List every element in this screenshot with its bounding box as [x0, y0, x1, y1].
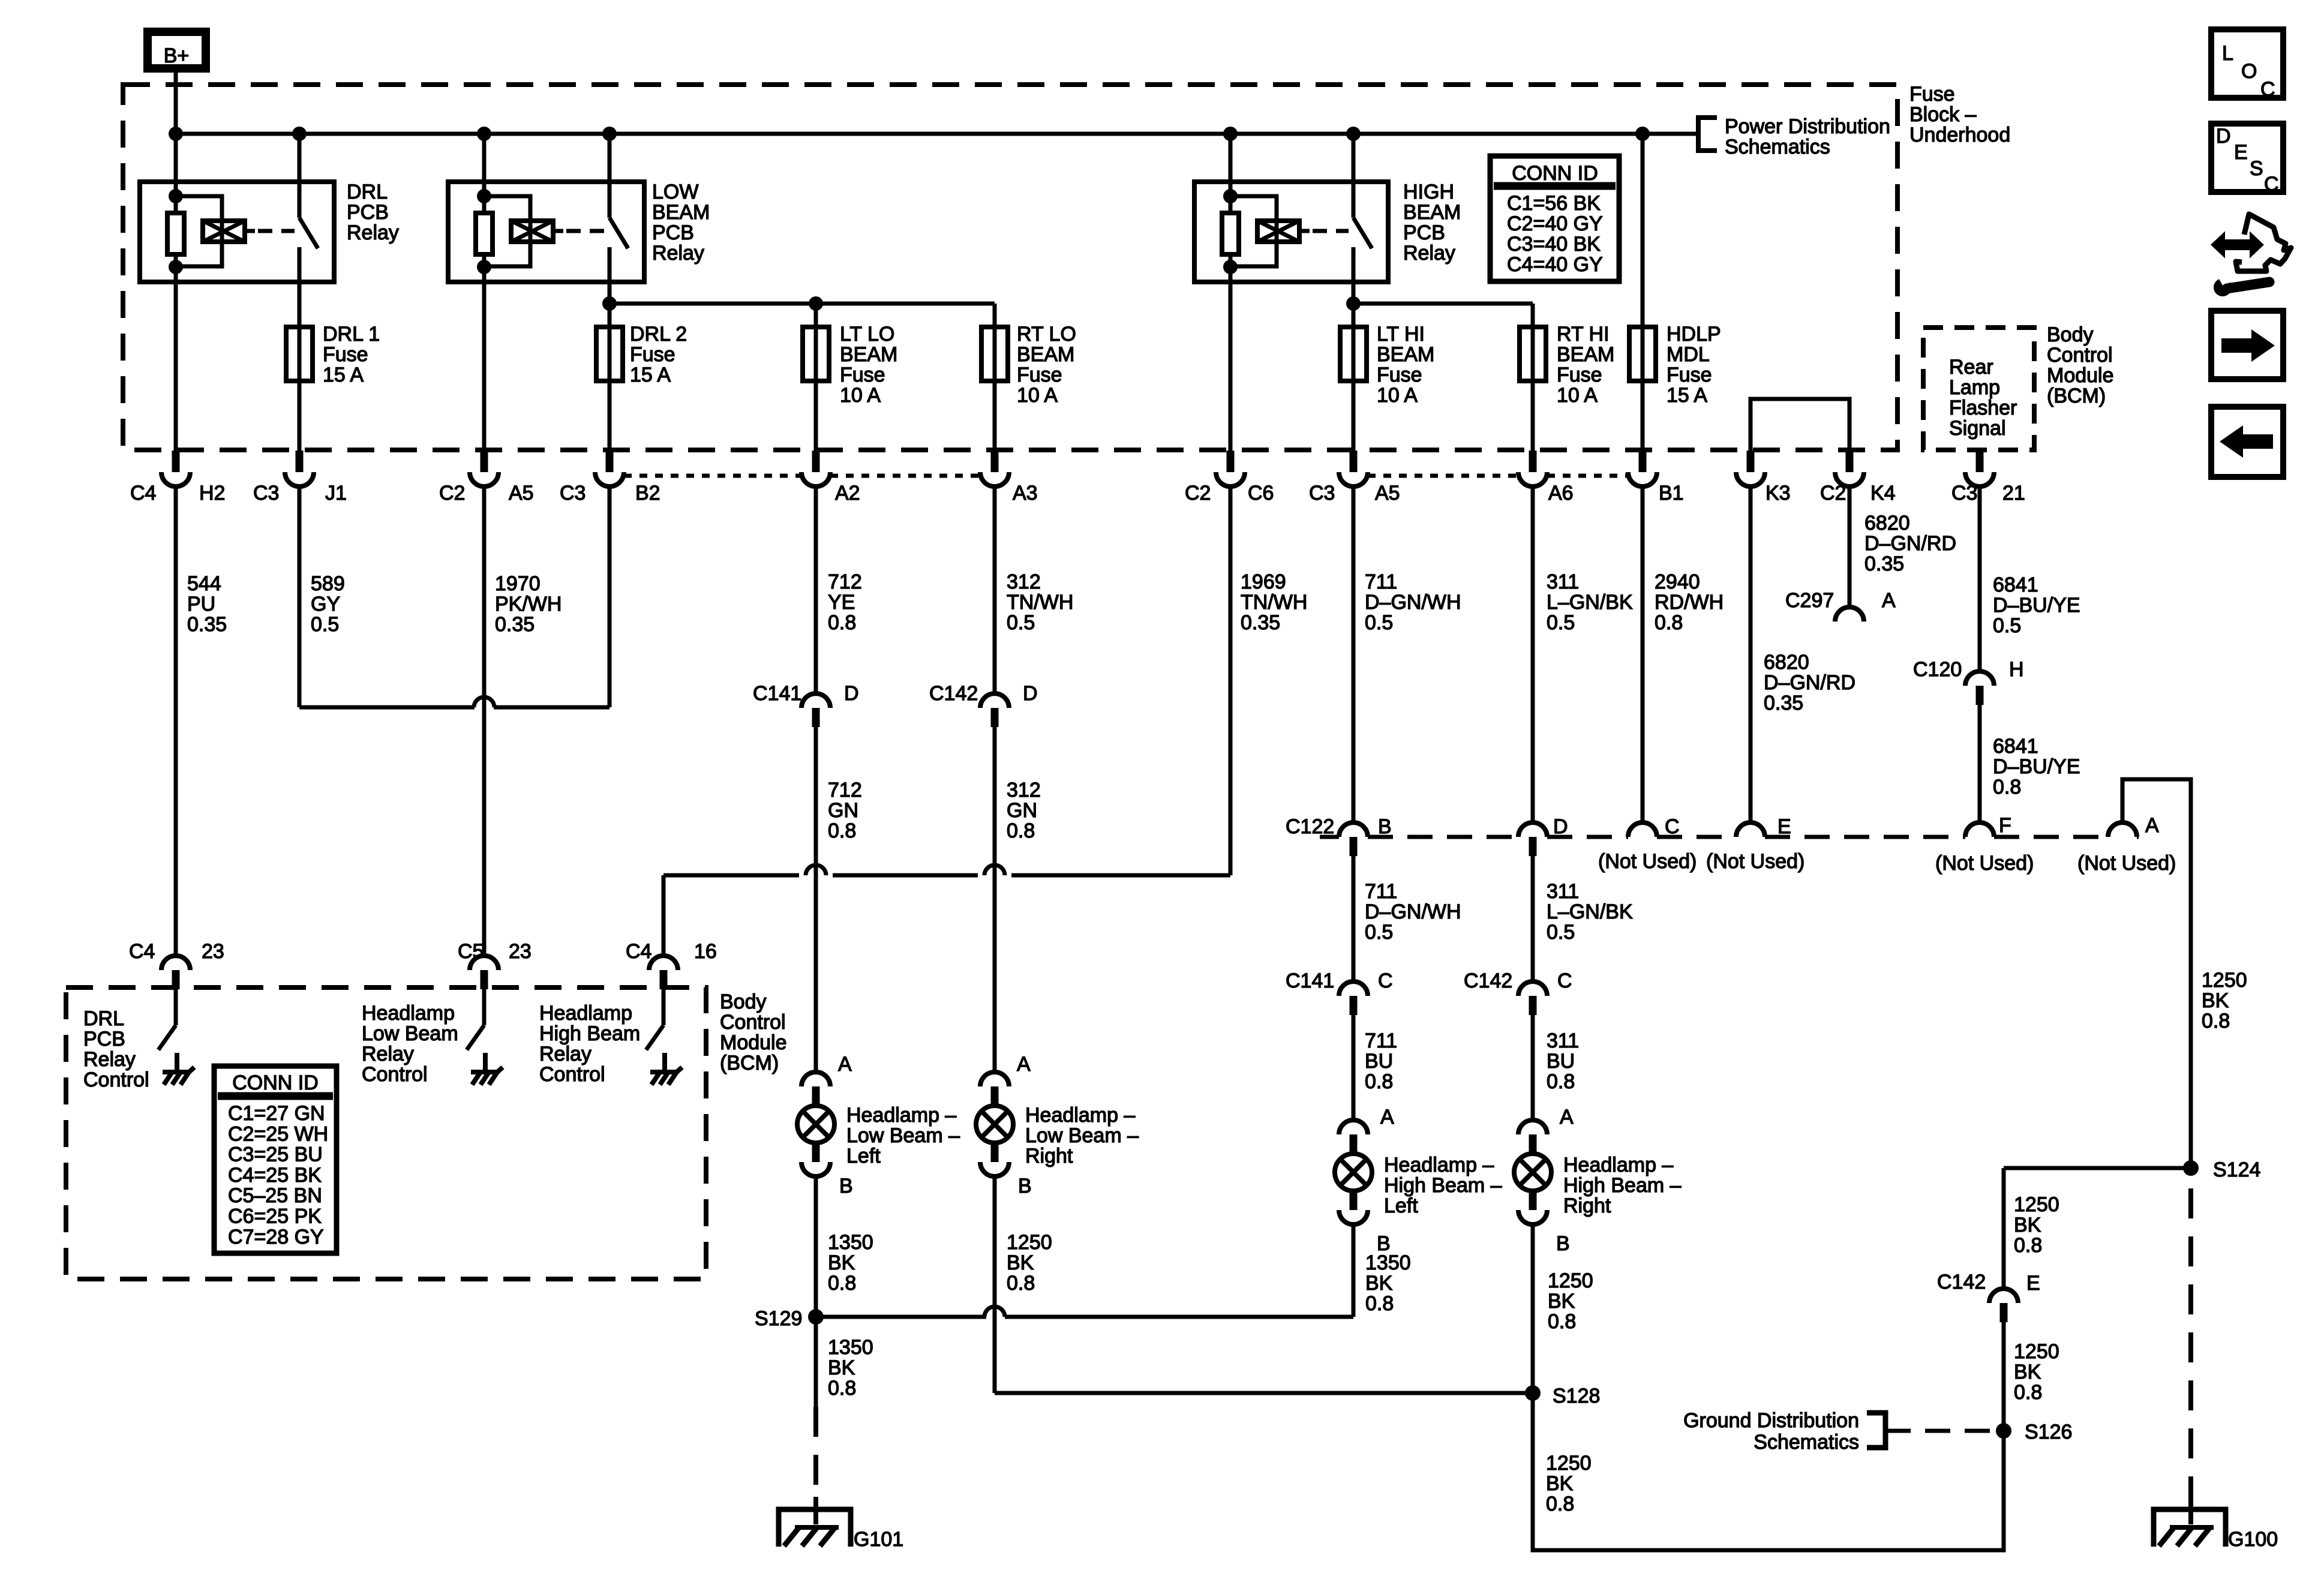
svg-text:C3=25 BU: C3=25 BU: [228, 1143, 323, 1166]
svg-text:Fuse: Fuse: [840, 364, 885, 386]
connector pin A6: [1518, 451, 1547, 487]
svg-text:C3: C3: [1309, 482, 1335, 505]
svg-text:E: E: [2026, 1272, 2040, 1295]
svg-text:A: A: [1017, 1053, 1031, 1076]
svg-text:C7=28 GY: C7=28 GY: [228, 1226, 324, 1248]
svg-text:BEAM: BEAM: [1377, 343, 1434, 366]
svg-text:0.8: 0.8: [1993, 776, 2021, 798]
svg-text:311: 311: [1547, 880, 1579, 903]
svg-text:C4: C4: [129, 940, 155, 963]
connector C141 pin D: [801, 694, 830, 727]
wire jumper K3 to K4 inside fuse block: [1750, 399, 1849, 451]
svg-text:O: O: [2241, 60, 2257, 83]
svg-text:C2: C2: [1820, 482, 1846, 505]
svg-text:0.35: 0.35: [1864, 553, 1904, 575]
svg-text:0.5: 0.5: [1007, 611, 1035, 634]
lamp Headlamp High Beam Right: [1514, 1154, 1551, 1191]
wire bus drops into relays: [176, 134, 1353, 182]
connector C122 pin D: [1518, 822, 1547, 856]
svg-text:0.5: 0.5: [311, 613, 339, 636]
icon arrow left box: [2211, 407, 2283, 477]
svg-text:MDL: MDL: [1667, 343, 1710, 366]
label Headlamp Low Beam Right: [1025, 1104, 1139, 1167]
label 311 L-GN/BK 0.5 (lower): [1547, 880, 1633, 944]
svg-text:C141: C141: [1286, 969, 1334, 992]
svg-text:S: S: [2250, 157, 2263, 180]
svg-text:6841: 6841: [1993, 735, 2038, 758]
wire 6820 D-GN/RD from K3: [1749, 487, 1753, 822]
svg-text:Control: Control: [362, 1063, 428, 1086]
labels C122 pins: [1286, 814, 2159, 838]
svg-text:Relay: Relay: [539, 1043, 591, 1065]
svg-text:1969: 1969: [1241, 571, 1286, 593]
svg-text:C2: C2: [1185, 482, 1211, 505]
connector C141 pin C: [1339, 981, 1368, 1015]
svg-text:S124: S124: [2213, 1158, 2260, 1181]
splice S126: [1996, 1421, 2072, 1443]
svg-text:BEAM: BEAM: [652, 201, 710, 224]
svg-text:1250: 1250: [1546, 1452, 1592, 1475]
svg-text:B1: B1: [1659, 482, 1684, 505]
svg-text:1350: 1350: [1365, 1251, 1411, 1274]
connector C142 pin D: [980, 694, 1009, 727]
svg-text:Headlamp –: Headlamp –: [1563, 1154, 1673, 1176]
label 1250 BK 0.8 (right feed): [2202, 969, 2247, 1032]
label 1350 BK 0.8 (low left): [828, 1231, 873, 1295]
label DRL PCB Relay Control: [83, 1007, 149, 1091]
svg-text:PCB: PCB: [1403, 221, 1445, 244]
svg-text:C: C: [1665, 815, 1680, 838]
labels A / B of Headlamp High Beam Right: [1556, 1106, 1574, 1255]
svg-text:DRL: DRL: [83, 1007, 124, 1030]
svg-text:High Beam –: High Beam –: [1384, 1174, 1502, 1197]
label HIGH BEAM PCB Relay: [1403, 181, 1461, 265]
label 1250 BK 0.8 (below S128): [1546, 1452, 1592, 1515]
svg-text:10 A: 10 A: [1017, 384, 1058, 407]
label 6841 D-BU/YE 0.5: [1993, 574, 2080, 637]
ground G100: [2154, 1497, 2278, 1551]
lamp Headlamp Low Beam Left: [797, 1106, 834, 1143]
svg-text:C142: C142: [1464, 969, 1512, 992]
svg-text:A: A: [1380, 1106, 1394, 1128]
svg-text:23: 23: [202, 940, 224, 963]
wire B+ to bus: [174, 73, 178, 134]
svg-text:0.5: 0.5: [1365, 921, 1393, 944]
svg-text:711: 711: [1365, 880, 1397, 903]
wire 544 PU circuit: [174, 487, 178, 956]
wire 311 BU to high beam right: [1531, 1015, 1535, 1120]
svg-text:712: 712: [828, 571, 862, 593]
svg-text:C4: C4: [626, 940, 651, 963]
labels C141 C: [1286, 969, 1393, 992]
wire bus to HDLP MDL fuse: [1641, 134, 1645, 451]
svg-text:C120: C120: [1913, 658, 1962, 681]
svg-text:Control: Control: [2047, 344, 2113, 367]
fuse RT HI BEAM 10A: [1520, 327, 1546, 381]
label 712 YE 0.8: [828, 571, 862, 634]
label Headlamp High Beam Relay Control: [539, 1002, 640, 1086]
fuse DRL 1 15A: [286, 327, 313, 381]
svg-text:0.8: 0.8: [1548, 1310, 1576, 1333]
wire C122 A jog to ground run: [2122, 779, 2191, 1168]
svg-text:PCB: PCB: [83, 1028, 125, 1050]
svg-text:0.8: 0.8: [828, 611, 856, 634]
svg-text:A6: A6: [1548, 482, 1574, 505]
wire 311 L-GN/BK below C122: [1531, 856, 1535, 981]
label 712 GN 0.8: [828, 779, 862, 842]
label Body Control Module (BCM): [2047, 323, 2114, 407]
wire S124 to G100 dashed: [2188, 1188, 2193, 1497]
connector pin C2 C6: [1216, 451, 1245, 487]
label 2940 RD/WH 0.8: [1655, 571, 1724, 634]
wire 1970 PK/WH circuit: [482, 487, 487, 956]
svg-text:GN: GN: [828, 799, 858, 822]
connector BCM C4 pin 23: [129, 940, 224, 989]
svg-text:Module: Module: [2047, 364, 2114, 387]
labels C141 D: [753, 682, 859, 705]
svg-text:C4: C4: [130, 482, 156, 505]
BCM rear lamp flasher dashed box: [1923, 328, 2034, 450]
svg-text:A3: A3: [1013, 482, 1038, 505]
svg-text:C: C: [1557, 969, 1572, 992]
svg-text:16: 16: [694, 940, 717, 963]
svg-text:C3: C3: [1951, 482, 1977, 505]
relay K2 LOW BEAM PCB coil winding: [484, 196, 563, 266]
svg-text:711: 711: [1365, 1029, 1397, 1052]
svg-text:D–GN/RD: D–GN/RD: [1864, 532, 1956, 555]
relay K1 DRL PCB switch contacts: [299, 182, 318, 282]
svg-text:589: 589: [311, 572, 345, 595]
fuse RT LO BEAM 10A: [981, 327, 1008, 381]
relay K2 LOW BEAM PCB switch contacts: [609, 182, 628, 282]
svg-text:DRL 1: DRL 1: [323, 323, 380, 346]
svg-text:(Not Used): (Not Used): [2077, 852, 2176, 875]
svg-text:Low Beam –: Low Beam –: [1025, 1124, 1139, 1147]
svg-text:15 A: 15 A: [1667, 384, 1707, 407]
connector pin C3 J1: [285, 451, 314, 487]
label DRL 1 Fuse 15 A: [323, 323, 380, 386]
svg-text:B2: B2: [635, 482, 660, 505]
svg-text:C3: C3: [253, 482, 279, 505]
svg-text:D: D: [1553, 815, 1568, 838]
svg-text:L–GN/BK: L–GN/BK: [1547, 900, 1633, 923]
svg-text:GY: GY: [311, 593, 340, 616]
svg-text:Left: Left: [1384, 1194, 1418, 1217]
svg-text:Lamp: Lamp: [1949, 376, 2000, 399]
BCM DRL relay control driver switch: [158, 989, 194, 1085]
svg-text:Ground Distribution: Ground Distribution: [1683, 1409, 1859, 1432]
svg-text:Schematics: Schematics: [1753, 1431, 1859, 1454]
svg-text:Headlamp: Headlamp: [362, 1002, 455, 1025]
relay K1 DRL PCB coil winding: [176, 196, 255, 266]
label Body Control Module (BCM) bottom: [720, 990, 787, 1074]
svg-text:C122: C122: [1286, 815, 1334, 838]
svg-text:1250: 1250: [2014, 1193, 2059, 1216]
svg-text:311: 311: [1547, 1029, 1579, 1052]
svg-text:0.5: 0.5: [1547, 611, 1575, 634]
connector pin C4 H2: [161, 451, 190, 487]
svg-text:D–BU/YE: D–BU/YE: [1993, 594, 2080, 617]
wire C142 E up to S124: [2004, 1168, 2191, 1289]
connector BCM C5 pin 23: [458, 940, 532, 989]
svg-text:C2=25 WH: C2=25 WH: [228, 1122, 328, 1145]
connector C142 pin C: [1518, 981, 1547, 1015]
wire 712 GN circuit: [814, 727, 818, 1072]
relay box K2 LOW BEAM PCB: [448, 182, 644, 282]
svg-text:23: 23: [509, 940, 532, 963]
label 6820 D-GN/RD 0.35 (K3): [1764, 651, 1855, 715]
svg-text:K4: K4: [1870, 482, 1896, 505]
svg-text:YE: YE: [828, 591, 855, 614]
svg-text:High Beam –: High Beam –: [1563, 1174, 1682, 1197]
svg-text:0.8: 0.8: [1546, 1493, 1574, 1515]
svg-text:BK: BK: [1365, 1272, 1393, 1295]
connector pin C3 B2: [595, 451, 624, 487]
label 6820 D-GN/RD 0.35 (K4): [1864, 512, 1956, 575]
svg-text:LT LO: LT LO: [840, 323, 894, 346]
icon DESC box: [2211, 124, 2283, 196]
wire S129 to G101: [814, 1317, 818, 1497]
wire HIGH BEAM relay coil output to C2 C6: [1229, 282, 1233, 451]
off-page bracket to Power Distribution Schematics: [1698, 118, 1717, 151]
labels A / B of Headlamp Low Beam Left: [838, 1053, 853, 1197]
svg-text:S128: S128: [1553, 1385, 1600, 1407]
svg-text:BK: BK: [1546, 1472, 1574, 1495]
wire 1350 BK low beam left to S129: [814, 1176, 818, 1317]
labels A / B of Headlamp High Beam Left: [1377, 1106, 1394, 1255]
labels C120 H: [1913, 658, 2024, 681]
svg-text:RT HI: RT HI: [1557, 323, 1610, 346]
label 711 D-GN/WH 0.5: [1365, 571, 1461, 634]
svg-text:Relay: Relay: [652, 242, 704, 265]
wire DRL relay switch to DRL 1 fuse: [298, 282, 302, 451]
label DRL PCB Relay: [347, 181, 399, 244]
svg-text:C5: C5: [458, 940, 484, 963]
icon shift/wrench: [2212, 214, 2291, 296]
label 544 PU 0.35: [187, 572, 227, 636]
wire 589 GY circuit: [299, 487, 609, 707]
labels C142 E: [1937, 1271, 2040, 1295]
svg-text:Left: Left: [846, 1145, 881, 1167]
svg-text:C2=40 GY: C2=40 GY: [1507, 212, 1603, 235]
svg-text:S129: S129: [755, 1307, 802, 1330]
label 1969 TN/WH 0.35: [1241, 571, 1307, 634]
svg-text:Rear: Rear: [1949, 356, 1993, 379]
label 1970 PK/WH 0.35: [495, 572, 562, 636]
crossover hop at 1658 on S129 run: [984, 1307, 1005, 1317]
svg-text:Schematics: Schematics: [1725, 136, 1830, 158]
svg-text:L: L: [2222, 42, 2233, 65]
connector pin B1: [1628, 451, 1657, 487]
svg-text:TN/WH: TN/WH: [1241, 591, 1307, 614]
connector pin C2 K4: [1835, 451, 1864, 487]
svg-text:0.8: 0.8: [2202, 1010, 2230, 1032]
svg-text:10 A: 10 A: [1377, 384, 1418, 407]
svg-text:B: B: [1378, 815, 1392, 838]
svg-text:C: C: [2264, 173, 2279, 196]
svg-text:GN: GN: [1007, 799, 1037, 822]
svg-text:312: 312: [1007, 571, 1041, 593]
wire LOW BEAM relay switch subfeed: [602, 282, 995, 451]
svg-text:0.8: 0.8: [2014, 1381, 2042, 1404]
wire 711 D-GN/WH below C122: [1352, 856, 1356, 981]
svg-text:C1=27 GN: C1=27 GN: [228, 1102, 325, 1125]
svg-text:F: F: [1999, 814, 2011, 837]
bus junction dots: [169, 127, 1650, 141]
svg-text:B: B: [1018, 1175, 1032, 1197]
connector C122 pin C (not used): [1628, 822, 1657, 837]
labels (Not Used): [1598, 850, 2176, 875]
svg-text:6820: 6820: [1764, 651, 1809, 674]
label Ground Distribution Schematics: [1683, 1409, 1859, 1454]
svg-text:(BCM): (BCM): [2047, 385, 2106, 407]
svg-text:D: D: [1023, 682, 1038, 705]
label 311 BU 0.8: [1547, 1029, 1579, 1093]
icon LOC box: [2211, 29, 2283, 101]
svg-text:0.5: 0.5: [1547, 921, 1575, 944]
svg-text:Low Beam –: Low Beam –: [846, 1124, 960, 1147]
wire high beam left 1350 BK to S129 run: [1352, 1224, 1356, 1317]
svg-text:LOW: LOW: [652, 181, 698, 203]
svg-text:0.35: 0.35: [1241, 611, 1280, 634]
wire 312 TN/WH circuit: [993, 487, 997, 694]
label Rear Lamp Flasher Signal: [1949, 356, 2017, 440]
label 1250 BK 0.8 (high right): [1548, 1269, 1593, 1333]
label 711 D-GN/WH 0.5 (lower): [1365, 880, 1461, 944]
label LOW BEAM PCB Relay: [652, 181, 710, 265]
label Fuse Block Underhood: [1909, 83, 2010, 146]
svg-text:D–GN/WH: D–GN/WH: [1365, 591, 1461, 614]
svg-text:2940: 2940: [1655, 571, 1700, 593]
svg-text:Underhood: Underhood: [1909, 124, 2010, 146]
splice S129: [755, 1307, 1353, 1330]
svg-text:Body: Body: [720, 990, 767, 1013]
svg-text:C141: C141: [753, 682, 801, 705]
connector BCM C4 pin 16: [626, 940, 717, 989]
off-page bracket Ground Distribution Schematics: [1867, 1413, 1996, 1448]
svg-text:D–GN/WH: D–GN/WH: [1365, 900, 1461, 923]
label Headlamp Low Beam Left: [846, 1104, 960, 1167]
svg-text:C6=25 PK: C6=25 PK: [228, 1205, 322, 1228]
relay K1 DRL PCB actuating link (dashed): [258, 229, 295, 233]
fuse block underhood dashed outline: [123, 85, 1897, 450]
svg-text:G101: G101: [854, 1528, 903, 1551]
svg-text:1250: 1250: [2202, 969, 2247, 992]
splice S124: [2183, 1158, 2260, 1181]
svg-text:1350: 1350: [828, 1231, 873, 1254]
svg-text:D–GN/RD: D–GN/RD: [1764, 671, 1855, 694]
svg-text:6841: 6841: [1993, 574, 2038, 596]
inline connector dotted lines: [624, 474, 1628, 478]
svg-text:Relay: Relay: [362, 1043, 414, 1065]
svg-text:LT HI: LT HI: [1377, 323, 1425, 346]
connector pin B of Headlamp High Beam Left: [1339, 1191, 1368, 1224]
connector pin C2 A5: [470, 451, 499, 487]
svg-text:D: D: [2216, 125, 2231, 148]
icon arrow right box: [2211, 311, 2283, 379]
labels C297 A: [1785, 589, 1896, 612]
svg-text:311: 311: [1547, 571, 1579, 593]
crossover hops at 1360 and 1658: [806, 865, 1005, 875]
svg-text:BU: BU: [1365, 1050, 1393, 1073]
ground G101: [779, 1497, 903, 1551]
wire 311 L-GN/BK circuit: [1531, 487, 1535, 822]
svg-text:PK/WH: PK/WH: [495, 593, 562, 616]
svg-text:15 A: 15 A: [630, 364, 671, 386]
connector pin A3: [980, 451, 1009, 487]
connector C122 dashed boundary: [1320, 835, 2139, 839]
wire 712 YE circuit: [814, 487, 818, 694]
relay K2 LOW BEAM PCB actuating link (dashed): [566, 229, 605, 233]
wire 6841 D-BU/YE 0.8 circuit: [1978, 705, 1982, 822]
svg-text:0.8: 0.8: [828, 819, 856, 842]
label 1250 BK 0.8 (above C142 E): [2014, 1193, 2059, 1257]
connector pin A of Headlamp Low Beam Left: [801, 1072, 830, 1106]
svg-text:0.8: 0.8: [1365, 1070, 1393, 1093]
CONN ID table (BCM): [214, 1066, 337, 1253]
label Headlamp Low Beam Relay Control: [362, 1002, 458, 1086]
connector pin A of Headlamp High Beam Right: [1518, 1120, 1547, 1154]
battery feed symbol B+: [148, 32, 206, 68]
svg-text:0.8: 0.8: [2014, 1234, 2042, 1257]
svg-text:BK: BK: [2014, 1214, 2041, 1236]
svg-text:Right: Right: [1563, 1194, 1611, 1217]
wire high beam right 1250 BK to S128: [1531, 1224, 1535, 1393]
label 1350 BK 0.8 (below S129): [828, 1336, 873, 1400]
svg-text:Fuse: Fuse: [1909, 83, 1955, 106]
svg-text:C6: C6: [1248, 482, 1274, 505]
CONN ID table (fuse block): [1490, 156, 1619, 281]
svg-text:H2: H2: [199, 482, 225, 505]
label LT LO BEAM Fuse 10 A: [840, 323, 897, 407]
wire 1250 BK low beam right: [995, 1176, 1533, 1393]
label 1250 BK 0.8 (low right): [1007, 1231, 1052, 1295]
svg-text:Relay: Relay: [1403, 242, 1455, 265]
svg-text:1250: 1250: [1007, 1231, 1052, 1254]
svg-text:CONN ID: CONN ID: [232, 1071, 319, 1094]
svg-text:0.35: 0.35: [187, 613, 227, 636]
labels C142 C: [1464, 969, 1572, 992]
connector pin K3: [1736, 451, 1765, 487]
lamp Headlamp Low Beam Right: [976, 1106, 1013, 1143]
svg-text:RD/WH: RD/WH: [1655, 591, 1724, 614]
svg-text:BEAM: BEAM: [840, 343, 897, 366]
svg-text:21: 21: [2002, 482, 2025, 505]
svg-text:Module: Module: [720, 1031, 787, 1054]
svg-text:Fuse: Fuse: [1667, 364, 1712, 386]
svg-text:0.35: 0.35: [495, 613, 535, 636]
svg-text:0.5: 0.5: [1993, 614, 2021, 637]
svg-text:BK: BK: [2014, 1361, 2041, 1383]
wire 6820 D-GN/RD from K4: [1848, 487, 1852, 607]
label DRL 2 Fuse 15 A: [630, 323, 687, 386]
connector pin C3 21: [1965, 451, 1994, 487]
svg-text:Fuse: Fuse: [1017, 364, 1062, 386]
svg-text:Relay: Relay: [83, 1048, 136, 1071]
svg-text:1250: 1250: [2014, 1340, 2059, 1363]
svg-text:C142: C142: [1937, 1271, 1986, 1293]
label 312 TN/WH 0.5: [1007, 571, 1073, 634]
svg-text:C: C: [1378, 969, 1393, 992]
svg-text:Relay: Relay: [347, 221, 399, 244]
relay K1 DRL PCB coil resistor: [167, 182, 184, 282]
svg-text:D: D: [844, 682, 859, 705]
svg-text:B+: B+: [164, 44, 190, 67]
wire HIGH BEAM relay switch subfeed: [1346, 282, 1533, 451]
svg-text:0.5: 0.5: [1365, 611, 1393, 634]
svg-text:BK: BK: [2202, 989, 2229, 1012]
svg-text:C3=40 BK: C3=40 BK: [1507, 233, 1601, 256]
